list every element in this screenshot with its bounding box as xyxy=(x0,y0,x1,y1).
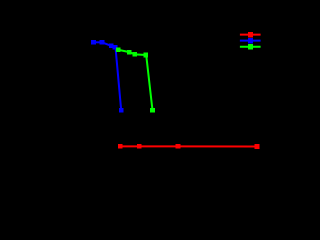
series red: marker 1 xyxy=(118,144,123,149)
legend entry blue: line xyxy=(240,40,261,42)
legend entry red: marker xyxy=(248,32,253,37)
series red: marker 2 xyxy=(137,144,142,149)
series red: line xyxy=(120,145,257,147)
legend entry green: line xyxy=(240,46,261,48)
series blue: marker 4 xyxy=(113,45,118,50)
series blue: marker 5 (end of plunge) xyxy=(119,108,124,113)
series green: marker 3 xyxy=(133,52,138,57)
series green: marker 5 (end of plunge) xyxy=(150,108,155,113)
legend entry blue: marker xyxy=(248,38,253,43)
series green: marker 2 xyxy=(127,50,132,55)
legend entry green: marker xyxy=(248,44,253,49)
series green: marker 1 xyxy=(116,48,121,53)
series blue: marker 3 xyxy=(109,44,114,49)
legend entry red: line xyxy=(240,34,261,36)
series blue: line xyxy=(94,42,122,110)
series green: line xyxy=(118,50,152,110)
series green: marker 4 xyxy=(144,53,149,58)
series blue: marker 1 xyxy=(91,40,96,45)
series red: marker 3 xyxy=(176,144,181,149)
series red: marker 4 (right end) xyxy=(255,144,260,149)
series blue: marker 2 xyxy=(100,40,105,45)
